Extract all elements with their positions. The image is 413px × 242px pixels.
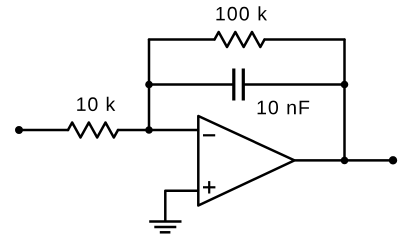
wire top left to resistor	[149, 38, 215, 41]
wire left vertical feedback branch	[148, 40, 151, 131]
wire resistor to inverting input	[118, 129, 198, 132]
label "100 k"	[216, 6, 267, 20]
node feedback left junction	[145, 81, 153, 89]
wire capacitor right lead	[245, 83, 345, 86]
node output terminal	[389, 156, 397, 164]
op-amp U1	[198, 116, 294, 206]
wire capacitor left lead	[149, 83, 232, 86]
resistor 100 k	[215, 32, 265, 47]
node input terminal	[15, 126, 23, 134]
node output junction	[341, 157, 349, 165]
wire output	[295, 159, 393, 162]
op-amp minus sign	[203, 134, 215, 136]
ground	[149, 222, 181, 233]
label "10 nF"	[258, 101, 310, 115]
op-amp plus sign	[203, 181, 215, 193]
node feedback right junction	[341, 81, 349, 89]
resistor 10 k	[68, 123, 118, 138]
label "10 k"	[77, 97, 115, 111]
capacitor 10 nF	[234, 69, 244, 101]
wire input lead	[19, 129, 68, 132]
node inverting junction	[145, 126, 153, 134]
wire right vertical feedback branch	[343, 40, 346, 161]
wire noninverting input	[165, 191, 198, 221]
wire top resistor to right vertical	[265, 38, 345, 41]
